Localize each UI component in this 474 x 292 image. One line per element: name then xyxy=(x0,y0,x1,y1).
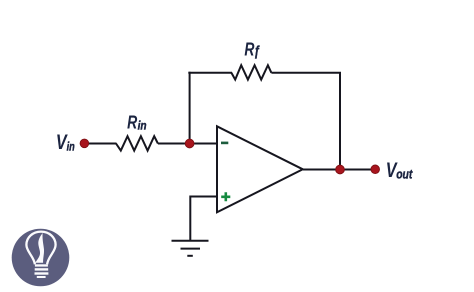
logo bulb outline xyxy=(26,232,55,265)
wire feedback riser xyxy=(189,72,191,144)
logo flame swoosh xyxy=(35,233,44,263)
wire ground to non-inverting input xyxy=(190,197,216,242)
node Vin terminal dot xyxy=(80,139,89,148)
op-amp U1 xyxy=(217,126,303,212)
wire top-left to Rf xyxy=(188,72,232,74)
wire op-amp output xyxy=(303,169,375,171)
logo circle badge xyxy=(12,229,70,287)
resistor Rf xyxy=(231,65,271,79)
resistor R_in xyxy=(116,136,158,150)
node inverting input junction xyxy=(185,139,194,148)
ground xyxy=(172,241,209,256)
svg-text:R: R xyxy=(244,40,254,60)
svg-text:ƒ: ƒ xyxy=(254,43,260,59)
label Rf xyxy=(244,40,260,60)
node output junction xyxy=(336,165,345,174)
logo bulb base bands xyxy=(35,264,49,278)
label Rin xyxy=(127,113,147,133)
label Vout xyxy=(386,159,414,183)
svg-text:in: in xyxy=(67,142,75,154)
label Vin xyxy=(56,131,75,155)
wire feedback drop to output xyxy=(339,73,341,170)
node Vout terminal dot xyxy=(371,165,380,174)
wire Rin to inverting node xyxy=(158,143,193,145)
wire junction to op-amp inverting input xyxy=(190,143,217,145)
inverting input minus sign xyxy=(221,142,228,145)
non-inverting input plus sign xyxy=(221,192,230,201)
wire Vin to Rin xyxy=(88,143,117,145)
svg-text:in: in xyxy=(138,120,147,133)
svg-text:R: R xyxy=(127,113,137,133)
svg-text:out: out xyxy=(396,168,413,182)
wire Rf to top-right corner xyxy=(271,72,341,74)
